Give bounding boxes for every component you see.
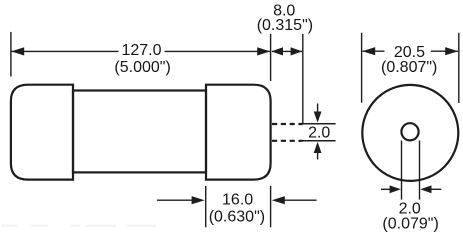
- svg-text:(5.000"): (5.000"): [114, 59, 170, 76]
- hidden slot dashed line bottom: [272, 140, 303, 142]
- dim 20.5 right extension line: [458, 33, 460, 103]
- dim text (5.000"): [114, 59, 170, 76]
- dim 16.0 right arrow: [272, 196, 317, 204]
- dim text (0.315"): [257, 17, 313, 34]
- dim 8.0 extension line: [302, 34, 304, 123]
- dim text (0.807"): [381, 59, 437, 76]
- dim 2.0 end left extension line: [401, 141, 403, 200]
- faint scan smudge bottom left: [1, 225, 156, 228]
- svg-text:(0.079"): (0.079"): [382, 215, 438, 232]
- dim 127.0 right extension line: [270, 34, 272, 81]
- fuse body tube: [73, 91, 206, 173]
- dim 2.0 side up arrow: [314, 142, 322, 160]
- dim text (0.079"): [382, 215, 438, 232]
- dim 8.0 double arrow: [271, 47, 302, 55]
- dim 2.0 side top leader line: [302, 123, 336, 125]
- dim 16.0 left arrow: [157, 196, 205, 204]
- svg-text:16.0: 16.0: [222, 192, 253, 209]
- dim text (0.630"): [209, 209, 265, 226]
- hidden slot dashed line top: [272, 123, 303, 125]
- dim 2.0 end left arrow: [381, 185, 401, 193]
- dim 127.0 line left segment with arrow: [11, 47, 118, 55]
- dim text 127.0: [121, 42, 161, 59]
- svg-text:(0.807"): (0.807"): [381, 59, 437, 76]
- dim 2.0 end right extension line: [419, 141, 421, 200]
- dim 127.0 line right segment with arrow: [165, 47, 271, 55]
- dim 16.0 left extension line: [205, 186, 207, 227]
- dim 2.0 side down arrow: [314, 104, 322, 123]
- dim 20.5 line with arrows: [362, 47, 458, 55]
- dim text 2.0 end: [399, 201, 421, 218]
- dim text 16.0: [222, 192, 253, 209]
- dim 16.0 right extension line: [270, 186, 272, 227]
- end view center hole circle: [401, 123, 418, 140]
- end view outer circle: [362, 85, 458, 181]
- dim 2.0 end right arrow: [420, 185, 441, 193]
- svg-text:(0.315"): (0.315"): [257, 17, 313, 34]
- dim text 8.0: [273, 2, 295, 19]
- dim 20.5 left extension line: [361, 33, 363, 103]
- svg-text:(0.630"): (0.630"): [209, 209, 265, 226]
- dim text 20.5: [394, 44, 425, 61]
- svg-text:2.0: 2.0: [308, 124, 330, 141]
- dim text 2.0 side: [308, 124, 330, 141]
- svg-text:127.0: 127.0: [121, 42, 161, 59]
- dim 2.0 side bottom leader line: [302, 140, 336, 142]
- dim 127.0 left extension line: [10, 32, 12, 77]
- fuse left end cap: [11, 85, 73, 180]
- fuse right end cap: [206, 85, 271, 180]
